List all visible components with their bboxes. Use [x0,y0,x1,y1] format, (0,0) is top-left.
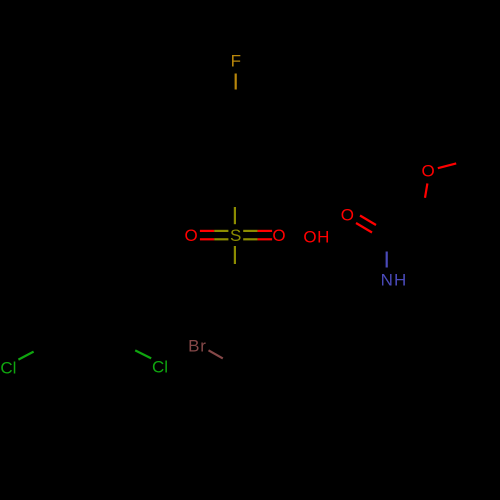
svg-text:Cl: Cl [152,358,168,377]
svg-text:O: O [185,226,198,245]
svg-text:r: r [200,336,206,355]
svg-text:N: N [381,271,393,290]
svg-text:Cl: Cl [0,358,16,377]
svg-text:F: F [231,52,241,71]
svg-text:O: O [422,161,435,180]
svg-text:H: H [317,227,329,246]
svg-text:S: S [230,226,241,245]
svg-text:O: O [341,206,354,225]
svg-text:O: O [303,227,316,246]
svg-text:B: B [188,336,199,355]
svg-text:O: O [272,226,285,245]
svg-text:H: H [394,271,406,290]
